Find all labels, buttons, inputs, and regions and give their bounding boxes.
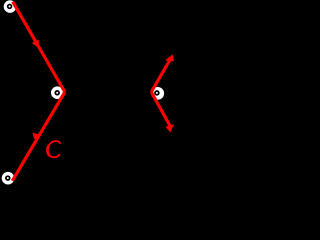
arrowhead: direction arrow on lower segment of C (32, 133, 41, 139)
label C (curve name) (48, 141, 61, 157)
node D terminal (right) (151, 87, 164, 100)
arrowhead: direction arrow on upper segment of C (32, 40, 40, 49)
wire: curve C upper segment from node A down to bend (13, 2, 65, 92)
wire: right path segment from bend up to upper-right arrow (151, 58, 171, 92)
wire: curve C lower segment from bend down to node B (12, 92, 65, 181)
node at bend of curve C (middle) (51, 86, 64, 99)
wire: right path segment from bend down to lower-right arrow (151, 92, 170, 126)
node A terminal (top-left) (4, 0, 17, 13)
arrowhead: end arrow at top of right path (165, 54, 174, 61)
arrowhead: end arrow at bottom of right path (166, 124, 175, 132)
node B terminal (bottom-left) (2, 172, 15, 185)
